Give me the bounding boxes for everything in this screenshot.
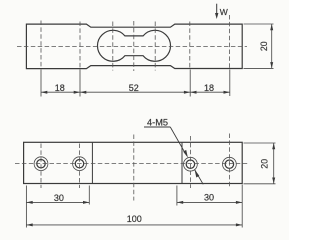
svg-text:18: 18 — [204, 83, 214, 93]
svg-text:52: 52 — [129, 83, 139, 93]
svg-text:W: W — [220, 7, 228, 17]
svg-text:20: 20 — [259, 41, 269, 51]
svg-text:4-M5: 4-M5 — [147, 118, 168, 128]
svg-text:30: 30 — [54, 193, 64, 203]
svg-text:20: 20 — [260, 159, 270, 169]
svg-text:100: 100 — [127, 214, 142, 224]
svg-text:18: 18 — [55, 83, 65, 93]
svg-text:30: 30 — [204, 193, 214, 203]
